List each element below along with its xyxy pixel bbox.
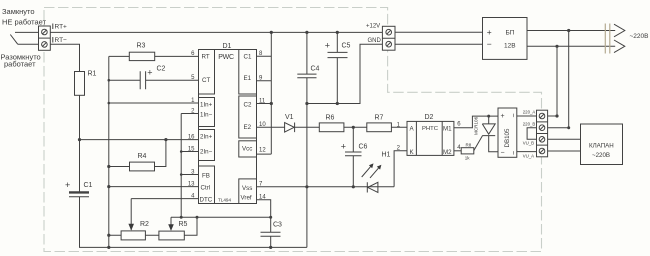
svg-text:220_A: 220_A	[523, 109, 536, 114]
svg-text:C4: C4	[311, 66, 320, 73]
svg-text:R7: R7	[375, 115, 384, 122]
svg-text:+12V: +12V	[366, 24, 380, 30]
svg-text:12: 12	[259, 148, 266, 154]
svg-text:CT: CT	[202, 77, 210, 84]
svg-text:14: 14	[259, 195, 266, 201]
svg-text:D1: D1	[223, 43, 232, 50]
svg-text:RT+: RT+	[55, 24, 68, 31]
svg-text:+: +	[65, 180, 70, 190]
svg-text:VU_B: VU_B	[523, 140, 534, 145]
svg-text:E2: E2	[244, 124, 252, 131]
svg-text:E1: E1	[244, 75, 252, 82]
svg-text:НЕ работает: НЕ работает	[2, 18, 47, 27]
svg-text:15: 15	[188, 146, 195, 152]
svg-text:~: ~	[511, 113, 518, 117]
svg-text:1In−: 1In−	[200, 112, 213, 119]
svg-text:GND: GND	[368, 38, 382, 44]
svg-text:1k: 1k	[465, 155, 471, 160]
svg-text:10: 10	[259, 122, 266, 128]
svg-text:V1: V1	[285, 114, 294, 121]
svg-text:D2: D2	[425, 114, 434, 121]
svg-text:R3: R3	[137, 43, 146, 50]
svg-text:DTC: DTC	[200, 196, 213, 203]
svg-text:КЛАПАН: КЛАПАН	[589, 143, 614, 150]
svg-text:C5: C5	[342, 43, 351, 50]
svg-text:+: +	[147, 68, 152, 78]
svg-text:R6: R6	[326, 115, 335, 122]
svg-text:−: −	[501, 150, 505, 157]
svg-text:DB105: DB105	[504, 128, 511, 147]
svg-text:MCR106: MCR106	[474, 116, 479, 135]
svg-text:+: +	[487, 27, 492, 37]
svg-text:C6: C6	[359, 144, 368, 151]
svg-text:Ctrl: Ctrl	[201, 185, 211, 192]
svg-text:~220В: ~220В	[592, 152, 610, 159]
svg-text:FB: FB	[202, 173, 210, 180]
svg-text:БП: БП	[506, 30, 515, 37]
svg-text:Vss: Vss	[242, 185, 252, 192]
svg-text:R8: R8	[466, 142, 472, 147]
svg-text:C3: C3	[273, 222, 282, 229]
svg-text:RT: RT	[202, 54, 210, 61]
svg-text:12В: 12В	[504, 43, 516, 50]
svg-text:R4: R4	[138, 153, 147, 160]
svg-text:1In+: 1In+	[200, 102, 213, 109]
svg-text:M2: M2	[443, 149, 452, 156]
svg-text:+: +	[325, 41, 330, 51]
svg-text:R5: R5	[179, 221, 188, 228]
svg-text:R1: R1	[88, 71, 97, 78]
svg-text:R2: R2	[140, 221, 149, 228]
svg-text:M1: M1	[443, 125, 452, 132]
svg-text:работает: работает	[4, 60, 36, 69]
svg-text:Замкнуто: Замкнуто	[2, 7, 35, 16]
svg-text:11: 11	[259, 98, 266, 104]
svg-text:2In+: 2In+	[200, 134, 213, 141]
svg-text:−: −	[487, 39, 492, 49]
svg-text:C1: C1	[84, 182, 93, 189]
svg-text:Vcc: Vcc	[242, 146, 252, 153]
svg-text:~: ~	[511, 151, 518, 155]
svg-text:Vref: Vref	[241, 195, 252, 202]
svg-text:C2: C2	[157, 66, 166, 73]
svg-text:2In−: 2In−	[200, 149, 213, 156]
svg-text:+: +	[341, 141, 346, 151]
svg-text:~220В: ~220В	[630, 33, 649, 40]
svg-text:VU_A: VU_A	[523, 153, 534, 158]
svg-text:C2: C2	[244, 102, 252, 109]
svg-text:RT−: RT−	[55, 37, 68, 44]
svg-text:16: 16	[188, 134, 195, 140]
svg-text:C1: C1	[244, 54, 252, 61]
svg-text:РНТС: РНТС	[422, 126, 439, 132]
svg-text:220_B: 220_B	[523, 122, 536, 127]
svg-text:13: 13	[188, 181, 195, 187]
svg-text:H1: H1	[382, 152, 391, 159]
svg-text:PWC: PWC	[218, 54, 234, 61]
svg-text:+: +	[501, 113, 505, 120]
svg-text:TL494: TL494	[218, 198, 231, 203]
